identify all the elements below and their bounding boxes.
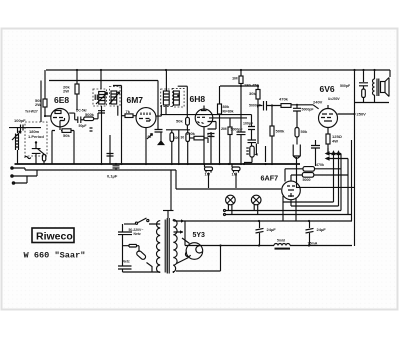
svg-text:2W: 2W [35, 102, 41, 107]
svg-text:5000pF: 5000pF [302, 108, 315, 112]
svg-text:Netz: Netz [123, 260, 130, 264]
svg-text:5000pF: 5000pF [249, 104, 262, 108]
svg-text:100pF: 100pF [14, 118, 26, 123]
svg-text:470k: 470k [316, 163, 324, 167]
svg-text:1.Period: 1.Period [28, 134, 44, 139]
svg-text:30: 30 [181, 136, 185, 140]
svg-text:50k: 50k [301, 129, 308, 134]
svg-text:Ri=80k: Ri=80k [223, 110, 234, 114]
svg-text:30k: 30k [249, 91, 256, 96]
svg-text:50k: 50k [176, 119, 183, 124]
svg-text:500k: 500k [276, 129, 286, 134]
svg-text:500k: 500k [85, 112, 95, 117]
svg-text:U=250V: U=250V [328, 97, 340, 101]
svg-text:5000: 5000 [303, 178, 311, 182]
svg-text:24µF: 24µF [267, 227, 277, 232]
svg-text:470k: 470k [279, 97, 289, 102]
svg-text:5Y3: 5Y3 [193, 232, 206, 239]
svg-text:6V6: 6V6 [320, 84, 335, 94]
svg-text:2M: 2M [221, 126, 227, 131]
svg-text:Tel-W27: Tel-W27 [25, 110, 38, 114]
svg-text:100pF: 100pF [243, 122, 254, 126]
svg-text:250V: 250V [357, 112, 367, 117]
svg-text:Riweco: Riweco [36, 231, 73, 243]
svg-text:1M: 1M [232, 172, 238, 177]
svg-text:500pF: 500pF [340, 84, 351, 88]
svg-text:5000pF: 5000pF [231, 128, 244, 132]
svg-text:1M: 1M [205, 172, 211, 177]
svg-text:6E8: 6E8 [54, 95, 69, 105]
svg-text:5mld: 5mld [277, 239, 285, 243]
svg-text:9k: 9k [148, 135, 152, 139]
svg-text:100k: 100k [186, 131, 196, 136]
svg-text:0,1µF: 0,1µF [107, 174, 118, 179]
svg-text:300: 300 [174, 136, 180, 140]
svg-text:50k: 50k [63, 133, 70, 138]
svg-text:W 660 "Saar": W 660 "Saar" [24, 251, 86, 261]
svg-text:75mA: 75mA [308, 242, 318, 246]
svg-text:1M: 1M [232, 76, 238, 81]
svg-text:2W: 2W [63, 89, 69, 94]
svg-text:6H8: 6H8 [190, 94, 206, 104]
svg-text:50µF: 50µF [79, 124, 88, 128]
svg-text:6AF7: 6AF7 [261, 173, 279, 182]
svg-text:24µF: 24µF [317, 227, 327, 232]
svg-text:DC-5kr: DC-5kr [76, 109, 88, 113]
svg-text:180-450: 180-450 [244, 83, 259, 88]
svg-text:Netz: Netz [134, 232, 141, 236]
svg-text:80k: 80k [223, 104, 230, 109]
svg-text:4W: 4W [332, 139, 338, 144]
svg-text:7k: 7k [126, 109, 131, 114]
svg-text:0,1: 0,1 [207, 132, 213, 137]
svg-text:240V: 240V [313, 100, 323, 105]
svg-text:6M7: 6M7 [127, 95, 144, 105]
